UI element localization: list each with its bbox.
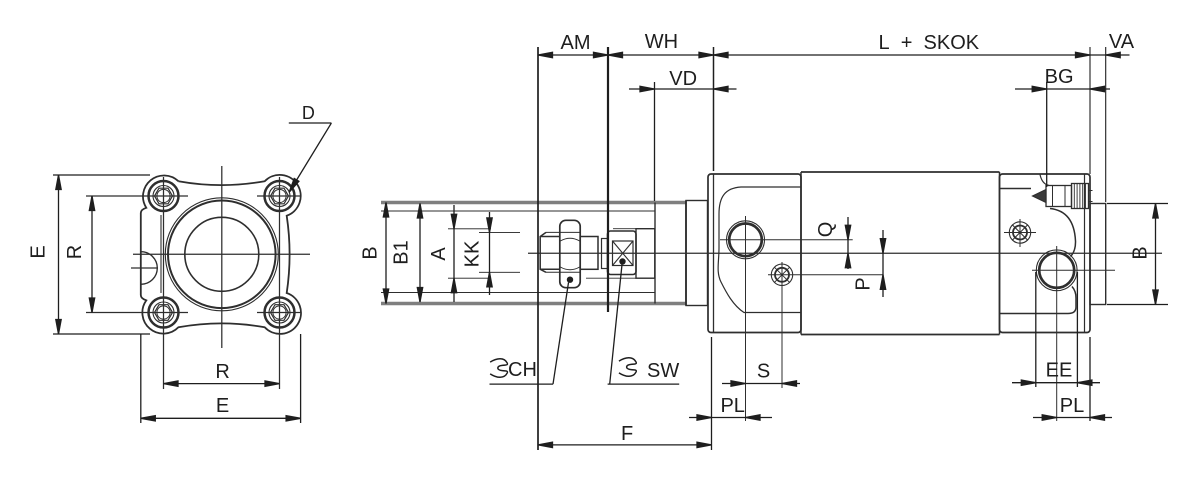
svg-text:B: B xyxy=(360,246,382,259)
svg-text:VA: VA xyxy=(1109,31,1135,53)
svg-text:S: S xyxy=(757,361,770,383)
dim VD xyxy=(629,86,737,91)
tube top line (gray thick) xyxy=(381,201,686,204)
port bump centerline xyxy=(131,267,158,269)
dim B1 xyxy=(417,204,422,303)
dim S xyxy=(722,381,800,386)
svg-text:SW: SW xyxy=(647,360,679,382)
svg-text:P: P xyxy=(853,277,875,290)
flange body outline xyxy=(141,175,301,334)
nut leader dot xyxy=(567,277,573,283)
dim Q xyxy=(845,217,850,269)
SW leader dot xyxy=(619,258,625,264)
tube end vertical xyxy=(654,203,656,304)
rear port centerline vertical xyxy=(1056,246,1058,421)
svg-text:F: F xyxy=(621,423,633,445)
leader D line xyxy=(287,123,332,194)
rod groove ring xyxy=(602,239,608,269)
boss TL xyxy=(149,181,179,211)
ext line x608 xyxy=(607,47,609,312)
bore circle xyxy=(185,217,259,291)
dim E vertical left view xyxy=(56,175,61,334)
rear head inner contour right upper xyxy=(1050,209,1076,257)
svg-text:D: D xyxy=(302,103,315,123)
main horizontal centerline xyxy=(133,253,310,255)
svg-text:E: E xyxy=(216,395,229,417)
collar edge tick top xyxy=(613,228,636,230)
rear head face line 2 xyxy=(1084,174,1086,333)
dim R horizontal xyxy=(164,381,280,386)
tube inner line bottom xyxy=(381,292,655,294)
boss TR xyxy=(265,181,295,211)
front port centerline vertical xyxy=(745,216,747,421)
boss centerlines vertical xyxy=(163,177,165,389)
dim A xyxy=(451,205,456,302)
tube end cap xyxy=(686,201,708,306)
nut chamfer arc top xyxy=(560,238,579,241)
rear port centerline horizontal xyxy=(1032,269,1115,271)
ext line x1105.7 xyxy=(1105,47,1107,202)
dim WH xyxy=(608,52,714,57)
valve stub lines xyxy=(1089,191,1093,202)
dim PL rear xyxy=(1033,415,1112,420)
ext line x713.5 top xyxy=(713,47,715,171)
rear head inner top line xyxy=(1000,188,1032,190)
front port centerline horizontal xyxy=(720,239,853,241)
rod collar xyxy=(636,229,655,279)
tube end vertical 2 xyxy=(685,201,687,306)
rod section xyxy=(580,237,598,270)
boss BR xyxy=(265,298,295,328)
boss centerlines horizontal top xyxy=(86,195,188,197)
rear head outer xyxy=(1000,174,1091,333)
dim AM xyxy=(538,52,608,57)
front screw circle outer xyxy=(771,264,792,285)
svg-text:Q: Q xyxy=(815,222,837,238)
dim R vertical xyxy=(89,196,94,313)
SW diagonal 2 xyxy=(613,241,634,266)
main vertical centerline xyxy=(221,166,223,348)
dim P xyxy=(880,230,885,297)
dim EE xyxy=(1012,380,1100,385)
svg-text:E: E xyxy=(28,245,50,258)
tube bottom line (gray thick) xyxy=(381,302,686,305)
rear screw centerline horizontal xyxy=(1004,232,1036,234)
boss BL xyxy=(149,298,179,328)
svg-text:CH: CH xyxy=(508,359,537,381)
front head outer xyxy=(708,174,801,333)
front head face line 2 xyxy=(713,174,715,333)
front screw cross xyxy=(775,267,790,282)
svg-text:B1: B1 xyxy=(391,240,413,264)
left edge inner line xyxy=(160,215,162,293)
svg-text:AM: AM xyxy=(561,32,591,54)
front screw circle inner xyxy=(775,268,789,282)
svg-text:PL: PL xyxy=(1060,395,1084,417)
ext line rod tip x538 xyxy=(537,47,539,450)
ext line x1090 top xyxy=(1089,47,1091,174)
ext line BG x1046.7 xyxy=(1046,82,1048,187)
dim VA xyxy=(1090,52,1130,57)
svg-text:R: R xyxy=(64,245,86,259)
barrel left edge xyxy=(800,172,802,335)
rear port circle outer xyxy=(1036,250,1077,291)
dim B left xyxy=(383,203,388,304)
PL rear ext x1090 xyxy=(1089,337,1091,421)
valve knurl block xyxy=(1072,184,1089,209)
EE tangent ext right xyxy=(1076,272,1078,387)
flange pilot circle outer xyxy=(165,198,278,311)
valve top connector arc xyxy=(1040,175,1049,186)
B right ext top xyxy=(1107,203,1168,205)
collar edge tick bottom xyxy=(586,277,636,279)
piston rod thread body xyxy=(540,232,546,272)
leader CH xyxy=(490,283,569,385)
front port circle outer xyxy=(727,221,765,259)
svg-text:VD: VD xyxy=(669,68,697,90)
side port half-circle on left edge xyxy=(141,252,157,285)
cushion valve body xyxy=(1046,186,1072,207)
nut chamfer arc bottom xyxy=(560,267,579,270)
front screw centerline horizontal xyxy=(768,274,883,276)
svg-text:R: R xyxy=(215,361,229,383)
E horiz ext right xyxy=(300,334,302,423)
front port circle inner xyxy=(729,224,762,257)
dim E horizontal xyxy=(141,416,301,421)
dim F xyxy=(538,442,712,447)
front head inner contour xyxy=(718,187,801,313)
ext line VD x654.5 xyxy=(654,82,656,201)
thread crest lines xyxy=(546,232,580,272)
E horiz ext left xyxy=(140,334,142,423)
dim BG xyxy=(1015,86,1110,91)
E ext top xyxy=(53,174,150,176)
rear screw cross xyxy=(1013,225,1028,240)
rod nut column xyxy=(560,220,580,287)
tube inner line top xyxy=(381,210,655,212)
B right ext bottom xyxy=(1107,304,1168,306)
valve body facet lines xyxy=(1053,186,1066,207)
svg-text:WH: WH xyxy=(645,31,678,53)
A tick top xyxy=(448,228,491,230)
KK tick bottom xyxy=(479,271,520,273)
rear screw circle inner xyxy=(1013,226,1027,240)
dim KK xyxy=(487,212,492,295)
boss centerlines horizontal bottom xyxy=(86,312,188,314)
SW diagonal 1 xyxy=(613,241,634,266)
cushion valve cone xyxy=(1033,190,1047,203)
SW flats outer square xyxy=(608,231,637,275)
SW wrench symbol xyxy=(619,358,636,377)
main axis centerline xyxy=(528,252,1162,254)
svg-text:B: B xyxy=(1130,246,1152,259)
E ext bottom xyxy=(53,333,150,335)
SW inner square xyxy=(613,241,634,266)
rear head inner contour right lower xyxy=(1000,287,1077,314)
dim B right xyxy=(1153,204,1158,305)
dim L + SKOK xyxy=(714,52,1091,57)
svg-text:EE: EE xyxy=(1046,360,1073,382)
A tick bottom xyxy=(448,277,491,279)
rear screw centerline vertical xyxy=(1019,219,1021,247)
barrel top xyxy=(801,171,1000,173)
svg-text:BG: BG xyxy=(1045,66,1074,88)
KK tick top xyxy=(479,231,520,233)
barrel right edge xyxy=(999,172,1001,335)
EE tangent ext left xyxy=(1035,272,1037,387)
barrel bottom xyxy=(801,334,1000,336)
svg-text:KK: KK xyxy=(462,240,484,267)
leader SW xyxy=(608,265,680,385)
rear screw circle outer xyxy=(1009,222,1030,243)
thread body lines xyxy=(540,237,560,270)
front screw centerline vertical xyxy=(781,262,783,388)
flange pilot circle inner xyxy=(168,201,276,309)
valve knurl hatch xyxy=(1074,184,1085,209)
svg-text:L + SKOK: L + SKOK xyxy=(878,32,979,54)
svg-text:A: A xyxy=(428,247,450,261)
dim PL front xyxy=(689,415,772,420)
CH wrench symbol xyxy=(490,359,507,378)
rear port circle inner xyxy=(1039,253,1074,288)
rear pilot boss xyxy=(1090,204,1106,305)
svg-text:PL: PL xyxy=(720,395,744,417)
F ext right x711.5 xyxy=(711,337,713,450)
